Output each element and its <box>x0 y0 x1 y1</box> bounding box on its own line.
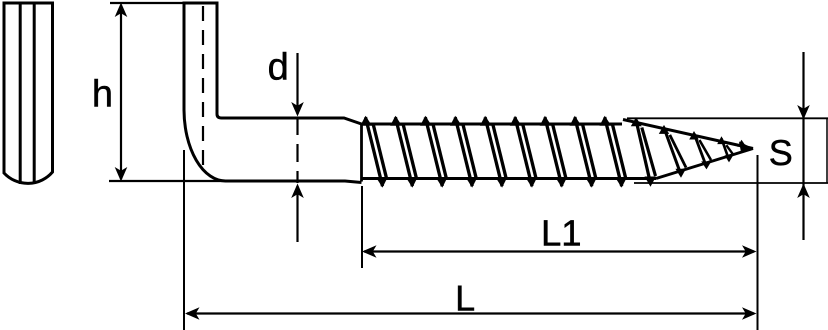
thread top boundary line <box>362 123 623 126</box>
h bottom arrowhead <box>115 167 128 182</box>
thread crest 2 bottom point <box>406 177 418 187</box>
thread crest 11 (cone) bottom point <box>675 169 686 178</box>
d centerline (dashed) <box>296 117 298 183</box>
d top arrowhead <box>291 102 304 117</box>
h top extension line <box>110 2 219 4</box>
thread crest 1 top point <box>360 116 372 126</box>
hook centerline (dashed) <box>202 6 204 166</box>
thread crest 7 top point <box>540 116 552 126</box>
thread crest 2 main line <box>395 117 412 186</box>
thread crest 11 (cone) top point <box>659 125 669 134</box>
thread crest 10 (cone) bottom point <box>645 177 657 187</box>
hook outer left edge and bend <box>184 2 362 183</box>
svg-text:h: h <box>92 74 113 116</box>
L left arrowhead <box>185 307 200 320</box>
hook inner right edge and fillet <box>217 2 362 125</box>
thread crest 11 (cone) main line <box>664 128 681 175</box>
thread crest 14 (cone) main line <box>739 142 754 153</box>
thread crest 12 (cone) bottom point <box>701 161 711 169</box>
thread crest 5 bottom point <box>496 177 508 187</box>
thread crest 1 second line <box>373 124 386 178</box>
thread crest 12 (cone) main line <box>694 134 707 167</box>
thread crest 9 top point <box>600 116 612 126</box>
drawing frame border fragment at right edge <box>826 118 828 183</box>
thread crest 9 main line <box>605 117 622 186</box>
thread crest 2 top point <box>390 116 402 126</box>
rod end view contour line 1 <box>19 3 22 184</box>
thread crest 11 (cone) second line <box>670 135 686 168</box>
thread crest 3 top point <box>420 116 432 126</box>
svg-text:L: L <box>455 277 475 318</box>
thread crest 6 top point <box>510 116 522 126</box>
thread crest 14 (cone) top point <box>737 140 746 147</box>
thread crest 7 bottom point <box>555 177 567 187</box>
d dimension line lower <box>296 186 298 242</box>
h top arrowhead <box>115 3 128 18</box>
thread crest 7 main line <box>545 117 562 186</box>
thread crest 13 (cone) main line <box>722 139 730 160</box>
thread crest 13 (cone) bottom point <box>725 155 734 162</box>
thread crest 12 (cone) second line <box>699 140 711 160</box>
S dimension line <box>802 52 804 240</box>
thread crest 5 second line <box>493 124 506 178</box>
thread crest 6 main line <box>515 117 532 186</box>
rod end view outline <box>3 2 55 184</box>
thread crest 7 second line <box>553 124 566 178</box>
thread crest 1 bottom point <box>376 177 388 187</box>
thread crest 4 second line <box>463 124 476 178</box>
svg-text:L1: L1 <box>541 213 582 254</box>
thread crest 13 (cone) second line <box>726 145 733 154</box>
d bottom arrowhead <box>291 184 304 199</box>
S top arrowhead <box>797 105 810 120</box>
thread crest 8 bottom point <box>585 177 597 187</box>
S top extension line <box>627 117 828 119</box>
right extension line at screw tip <box>757 155 759 330</box>
thread crest 8 top point <box>570 116 582 126</box>
thread crest 3 bottom point <box>436 177 448 187</box>
thread bottom boundary line <box>362 177 657 180</box>
L left extension line <box>183 150 185 330</box>
L1 left extension line <box>361 186 363 268</box>
S bottom arrowhead <box>797 184 810 199</box>
thread crest 10 (cone) top point <box>631 117 642 126</box>
thread crest 8 main line <box>575 117 592 186</box>
hook top cap <box>183 2 219 5</box>
thread crest 9 bottom point <box>615 177 627 187</box>
L dimension line <box>187 312 754 314</box>
svg-text:d: d <box>268 47 289 89</box>
thread crest 3 main line <box>425 117 442 186</box>
thread crest 5 top point <box>480 116 492 126</box>
thread start vertical line <box>360 123 363 182</box>
rod end view contour line 2 <box>33 3 36 183</box>
L right arrowhead <box>742 307 757 320</box>
h bottom extension line <box>109 180 228 182</box>
cone top edge <box>623 120 753 149</box>
thread crest 3 second line <box>433 124 446 178</box>
thread crest 9 second line <box>612 124 625 178</box>
svg-text:S: S <box>769 132 793 173</box>
thread crest 10 (cone) main line <box>636 120 651 184</box>
thread crest 5 main line <box>485 117 502 186</box>
thread crest 8 second line <box>583 124 596 178</box>
thread crest 4 top point <box>450 116 462 126</box>
L1 left arrowhead <box>362 245 377 258</box>
L1 right arrowhead <box>742 245 757 258</box>
cone bottom edge <box>656 149 753 179</box>
thread crest 2 second line <box>403 124 416 178</box>
thread crest 4 bottom point <box>466 177 478 187</box>
S bottom extension line <box>634 182 828 184</box>
thread crest 4 main line <box>455 117 472 186</box>
thread crest 1 main line <box>366 117 383 186</box>
d dimension line upper <box>296 53 298 114</box>
thread crest 6 second line <box>523 124 536 178</box>
thread crest 6 bottom point <box>525 177 537 187</box>
thread crest 12 (cone) top point <box>689 131 699 140</box>
L1 dimension line <box>364 250 754 252</box>
h dimension line <box>120 6 122 179</box>
thread crest 13 (cone) top point <box>717 136 726 144</box>
thread crest 10 (cone) second line <box>642 128 656 177</box>
